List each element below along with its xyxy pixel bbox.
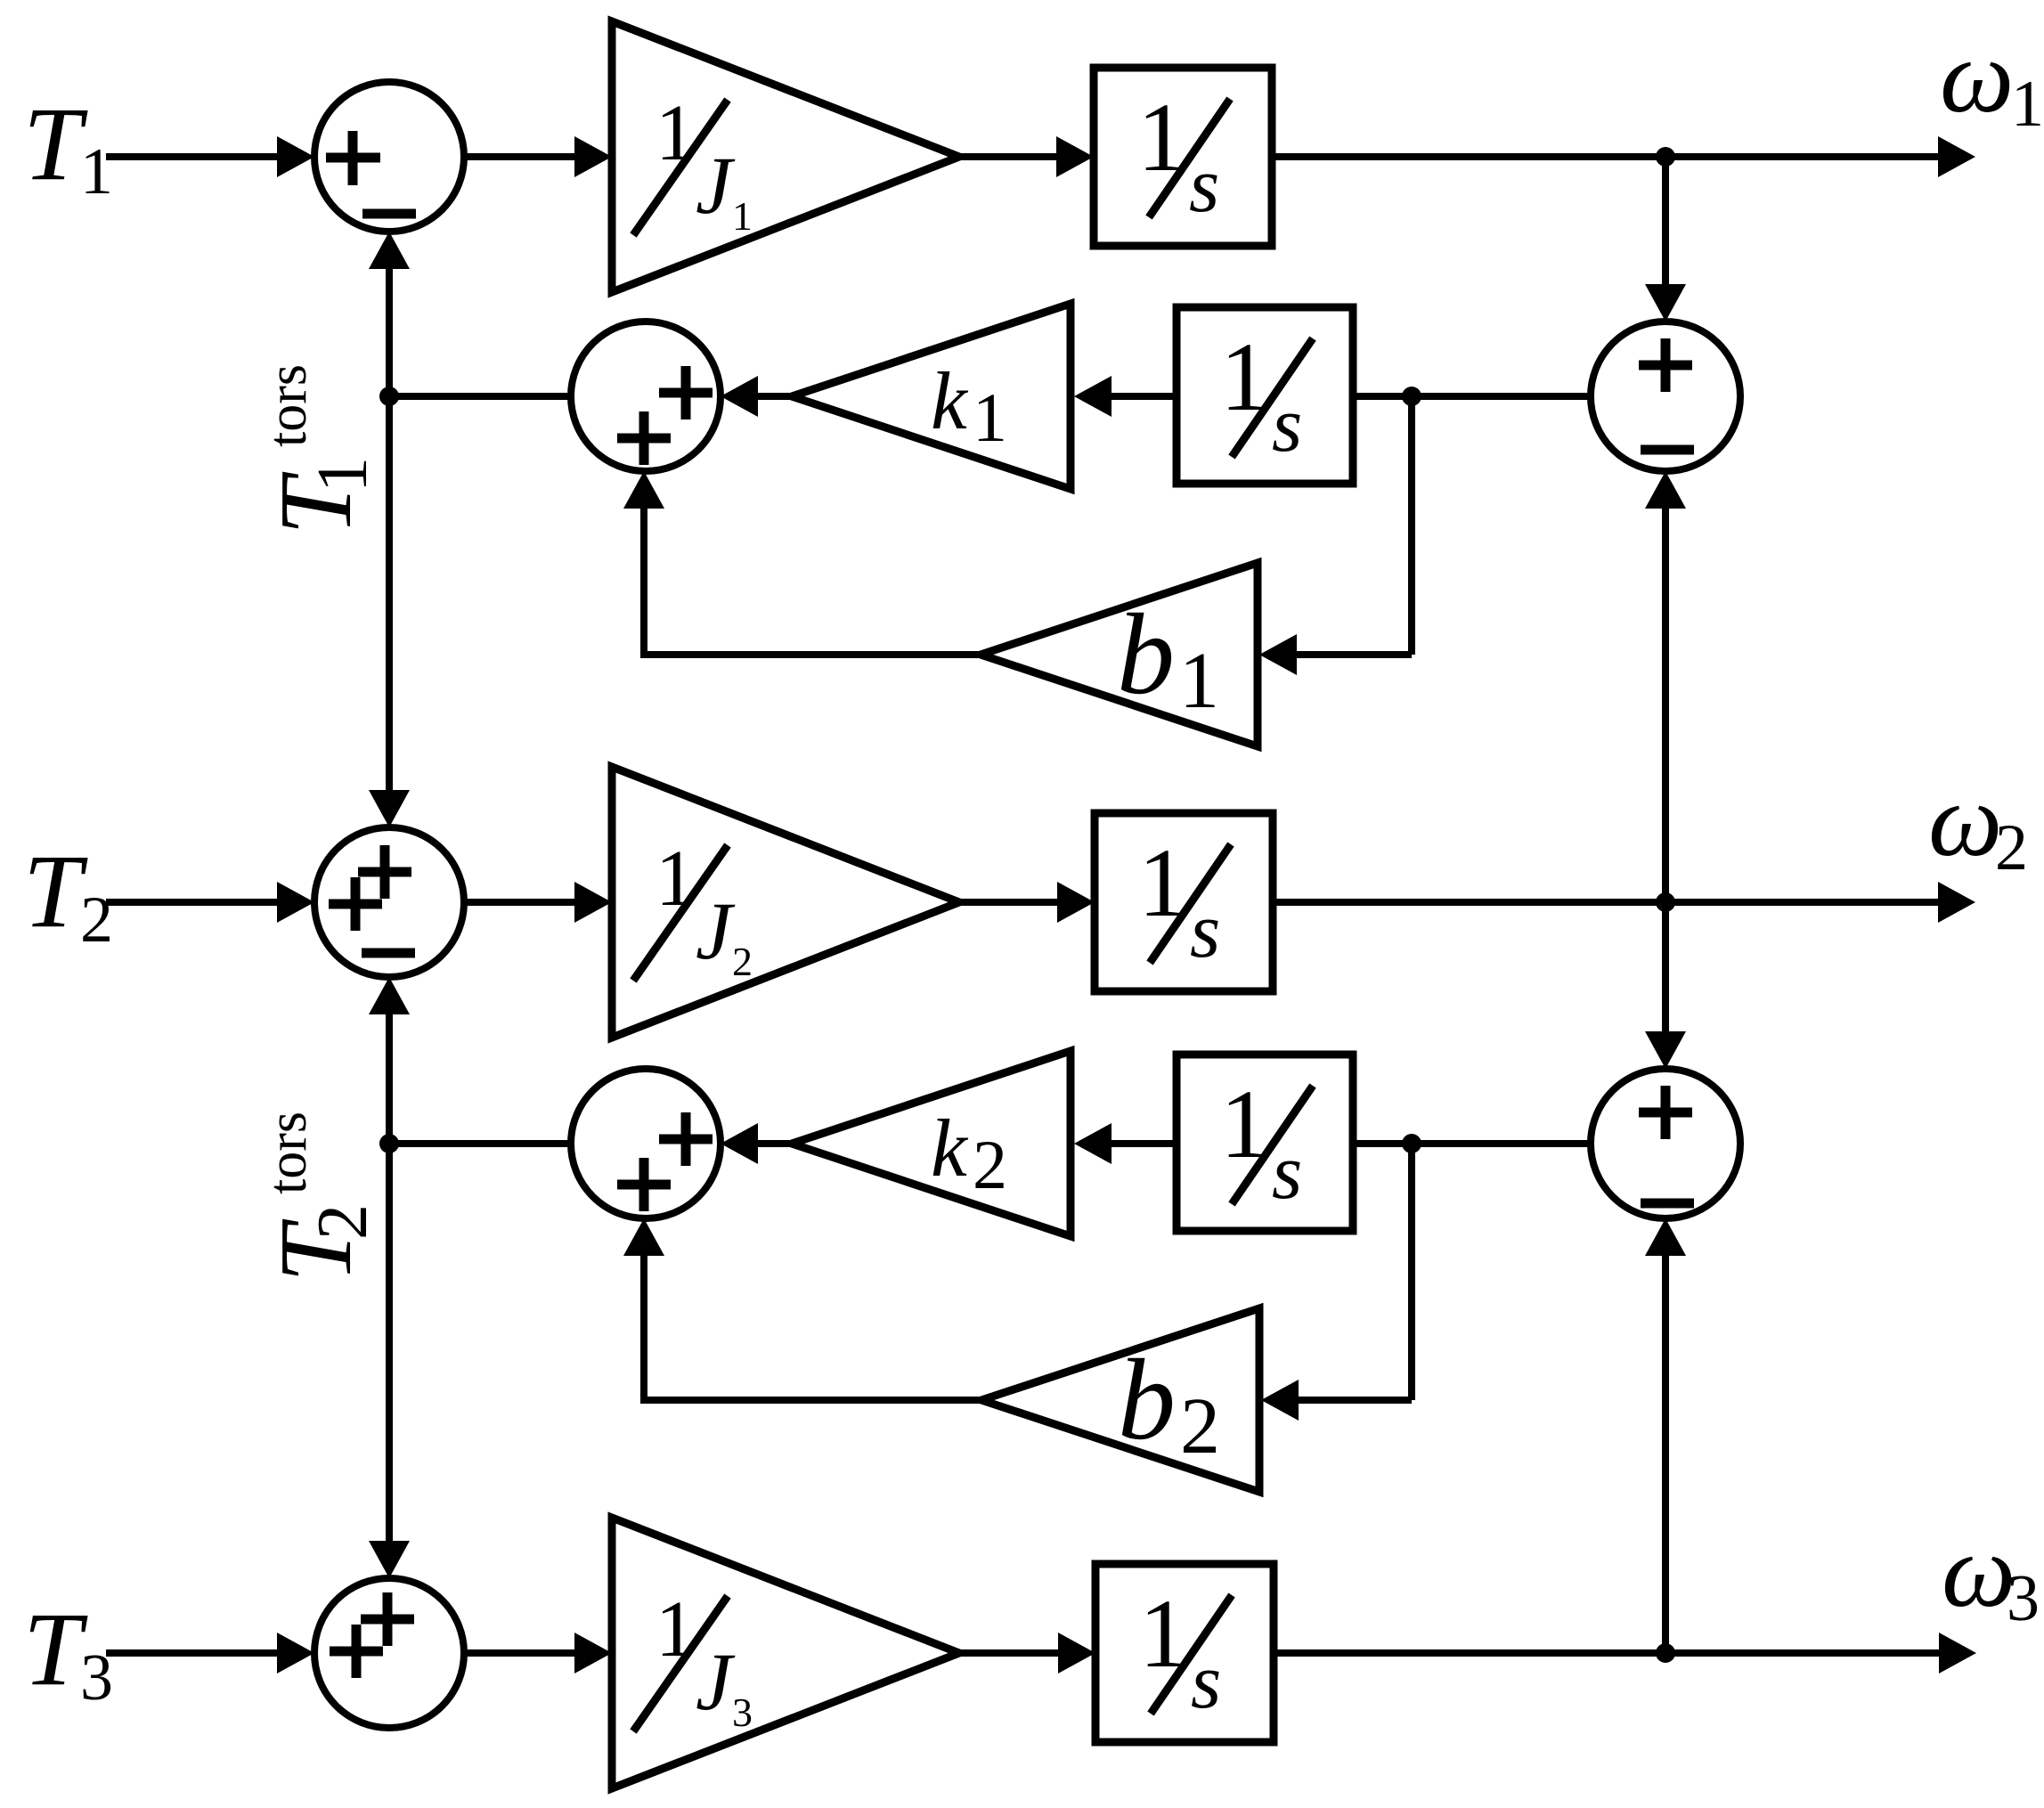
svg-text:T: T [23, 833, 88, 949]
svg-text:ω: ω [1940, 18, 2014, 134]
integrator 1/s row7 [1095, 1564, 1274, 1742]
svg-text:k: k [931, 1103, 969, 1193]
svg-text:2: 2 [732, 939, 753, 984]
svg-text:J: J [696, 885, 736, 976]
wire T2 input [106, 899, 279, 906]
wire T3 input [106, 1649, 279, 1657]
wire S1 to 1/J1 [464, 153, 574, 160]
wire w2 node down to R2 [1645, 902, 1686, 1069]
svg-text:b: b [1117, 590, 1175, 719]
wire w3 output [1274, 1649, 1939, 1657]
gain b2 [981, 1308, 1259, 1492]
svg-text:tors: tors [257, 364, 318, 447]
wire R2 to integrator row5 [1353, 1140, 1591, 1147]
node row5 [1402, 1134, 1421, 1153]
svg-text:b: b [1118, 1336, 1176, 1464]
svg-text:1: 1 [656, 89, 696, 177]
summing junction M1 [571, 322, 721, 471]
wire w2 output [1273, 899, 1938, 906]
node w2 [1656, 892, 1675, 912]
svg-text:s: s [1272, 382, 1302, 468]
integrator 1/s row4 [1095, 813, 1273, 991]
gain k1 [792, 304, 1071, 489]
svg-text:2: 2 [1995, 811, 2028, 884]
svg-text:1: 1 [304, 457, 382, 493]
svg-text:1: 1 [656, 1585, 696, 1674]
svg-text:ω: ω [1942, 1512, 2015, 1629]
svg-text:1: 1 [732, 193, 753, 239]
wire w2 node up to R1 [1645, 471, 1686, 902]
wire integrator row5 to k2 [1112, 1140, 1177, 1147]
integrator 1/s row1 [1094, 68, 1272, 246]
summing junction S1 [314, 82, 464, 232]
summing junction S2 [314, 827, 464, 977]
svg-text:3: 3 [732, 1690, 753, 1735]
node row2 [1402, 387, 1421, 406]
svg-text:T: T [23, 86, 88, 202]
svg-text:3: 3 [2007, 1562, 2040, 1635]
label w1 [1940, 18, 2044, 141]
wire 1/J1 to integrator [959, 153, 1056, 160]
wire T1tors vertical [369, 232, 410, 827]
svg-text:T: T [23, 1591, 88, 1707]
svg-text:2: 2 [1180, 1382, 1220, 1470]
wire k1 to M1 [758, 393, 792, 400]
wire S3 to 1/J3 [464, 1649, 574, 1657]
gain 1/J3 [612, 1518, 959, 1788]
label w2 [1928, 761, 2028, 884]
wire integrator row2 to k1 [1112, 393, 1177, 400]
svg-text:2: 2 [304, 1204, 382, 1240]
integrator 1/s row2 [1177, 307, 1353, 484]
wire 1/J3 to integrator [959, 1649, 1058, 1657]
summing junction M2 [571, 1069, 721, 1218]
svg-text:1: 1 [80, 135, 113, 208]
svg-text:ω: ω [1928, 761, 2002, 878]
wire w1 node down to R1 [1645, 157, 1686, 322]
node w3 [1656, 1643, 1675, 1663]
svg-text:1: 1 [1179, 637, 1219, 725]
svg-text:s: s [1190, 888, 1220, 974]
svg-text:J: J [696, 140, 736, 231]
svg-text:1: 1 [2011, 68, 2044, 141]
svg-text:J: J [696, 1636, 736, 1727]
svg-text:2: 2 [973, 1126, 1007, 1203]
label T3 [23, 1591, 113, 1714]
label T1tors (rotated) [257, 364, 382, 535]
svg-text:s: s [1272, 1129, 1302, 1216]
svg-text:2: 2 [80, 884, 113, 957]
wire b1 output to M1 [623, 471, 981, 658]
wire T1 input [106, 153, 279, 160]
wire w1 output [1272, 153, 1938, 160]
gain b1 [981, 563, 1258, 746]
wire w3 node up to R2 [1645, 1218, 1686, 1651]
svg-text:s: s [1191, 1639, 1221, 1725]
node T2tors [379, 1134, 399, 1153]
gain k2 [792, 1051, 1071, 1236]
svg-text:k: k [931, 355, 969, 446]
wire R1 to integrator row2 [1353, 393, 1591, 400]
summing junction S3 [314, 1578, 464, 1728]
summing junction R1 [1591, 322, 1740, 471]
gain 1/J2 [612, 767, 959, 1038]
svg-text:1: 1 [973, 379, 1007, 456]
svg-text:tors: tors [257, 1112, 318, 1194]
label T2 [23, 833, 113, 957]
wire node row2 down to b1 [1259, 396, 1412, 675]
integrator 1/s row5 [1177, 1055, 1353, 1231]
summing junction R2 [1591, 1069, 1740, 1218]
svg-text:s: s [1189, 143, 1219, 229]
wire 1/J2 to integrator [959, 899, 1057, 906]
wire b2 output to M2 [623, 1218, 981, 1404]
node w1 [1656, 147, 1675, 167]
wire S2 to 1/J2 [464, 899, 574, 906]
wire T2tors vertical [369, 977, 410, 1578]
wire M2 output to node [389, 1140, 571, 1147]
wire M1 output to node [389, 393, 571, 400]
svg-text:1: 1 [656, 835, 696, 923]
wire k2 to M2 [758, 1140, 792, 1147]
label T1 [23, 86, 113, 208]
gain 1/J1 [612, 21, 959, 292]
label T2tors (rotated) [257, 1112, 382, 1283]
wire node row5 down to b2 [1261, 1144, 1412, 1421]
node T1tors [379, 387, 399, 406]
label w3 [1942, 1512, 2040, 1635]
